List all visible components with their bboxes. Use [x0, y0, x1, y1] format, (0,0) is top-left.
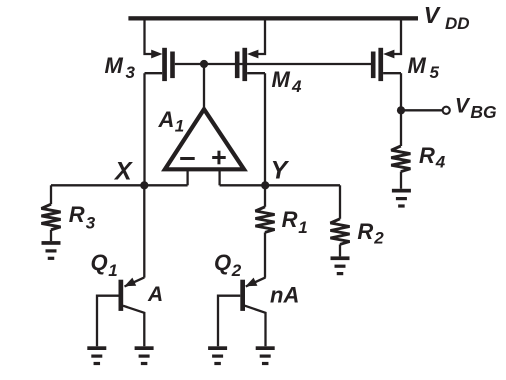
ground Q1 base — [87, 346, 106, 365]
svg-text:Q: Q — [91, 250, 108, 275]
svg-text:3: 3 — [86, 213, 96, 232]
ground R3 — [42, 241, 61, 260]
svg-text:4: 4 — [291, 77, 302, 96]
svg-text:3: 3 — [126, 63, 136, 82]
svg-text:2: 2 — [231, 261, 242, 280]
wire node X to Q1 emitter — [143, 185, 145, 277]
svg-text:A: A — [147, 283, 163, 306]
svg-text:M: M — [272, 67, 291, 92]
label R2 — [357, 219, 384, 248]
svg-text:R: R — [357, 219, 373, 244]
label R1 — [282, 207, 308, 237]
op-amp A1 — [165, 109, 244, 185]
resistor R1 — [255, 185, 274, 277]
svg-text:1: 1 — [175, 117, 184, 136]
node VBG junction — [397, 106, 405, 114]
svg-text:4: 4 — [435, 153, 446, 172]
label VDD — [424, 2, 470, 33]
wire gate bus M3-M4-M5 — [175, 63, 371, 65]
svg-text:BG: BG — [470, 102, 497, 122]
node X — [140, 181, 148, 189]
ground Q2 collector — [256, 346, 275, 365]
label M4 — [272, 67, 303, 96]
label VBG — [455, 95, 497, 123]
svg-text:Q: Q — [214, 250, 231, 275]
label R3 — [69, 202, 96, 232]
svg-text:M: M — [105, 53, 124, 78]
svg-text:R: R — [69, 202, 85, 227]
svg-text:A: A — [158, 107, 175, 132]
wire M4 source to rail — [258, 18, 265, 54]
wire M3 drain to node X — [143, 73, 145, 185]
resistor R4 — [391, 110, 410, 189]
wire VBG node to output terminal — [401, 109, 443, 111]
svg-text:R: R — [282, 207, 298, 232]
svg-text:1: 1 — [108, 261, 117, 280]
terminal VBG (open circle) — [443, 107, 450, 114]
power rail VDD — [128, 16, 418, 20]
node gate junction — [200, 60, 208, 68]
wire M5 source to rail — [394, 18, 401, 54]
transistor Q1 — [97, 277, 144, 346]
svg-text:DD: DD — [445, 14, 470, 33]
label M5 — [408, 53, 440, 82]
ground Q1 collector — [135, 346, 154, 365]
transistor M4 — [235, 48, 265, 81]
label R4 — [419, 143, 446, 172]
transistor Q2 — [218, 277, 266, 346]
ground R2 — [331, 256, 350, 275]
transistor M5 — [371, 48, 401, 81]
svg-text:1: 1 — [298, 218, 307, 237]
svg-text:M: M — [408, 53, 427, 78]
wire M4 drain to node Y — [264, 73, 266, 185]
label M3 — [105, 53, 136, 82]
svg-text:nA: nA — [270, 283, 299, 308]
label A1 — [158, 107, 185, 136]
wire M3 source to rail — [145, 18, 153, 54]
label Q2 — [214, 250, 242, 280]
resistor R3 — [41, 185, 60, 241]
svg-text:2: 2 — [373, 229, 384, 248]
transistor M3 — [145, 48, 175, 81]
wire M5 drain to node VBG — [400, 73, 402, 110]
svg-text:V: V — [455, 95, 471, 118]
svg-text:5: 5 — [430, 63, 440, 82]
svg-text:V: V — [424, 2, 441, 28]
node Y — [261, 181, 269, 189]
svg-text:Y: Y — [271, 157, 290, 185]
ground Q2 base — [208, 346, 227, 365]
wire op-amp output to gate node — [203, 64, 205, 110]
wire node Y row — [220, 184, 340, 186]
resistor R2 — [330, 185, 349, 256]
ground R4 — [392, 189, 411, 208]
wire node X row — [51, 184, 188, 186]
svg-text:X: X — [113, 157, 133, 185]
svg-text:R: R — [419, 143, 435, 168]
label Q1 — [91, 250, 118, 280]
